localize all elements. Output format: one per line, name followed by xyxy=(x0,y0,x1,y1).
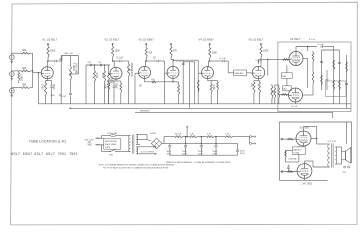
svg-text:D1B4: D1B4 xyxy=(151,133,157,135)
potentiometer hum balance xyxy=(267,59,269,69)
wire V6 grid xyxy=(281,171,298,173)
power tube V6 7591 xyxy=(297,164,312,179)
svg-text:V4 1/2 6SN7: V4 1/2 6SN7 xyxy=(199,37,215,41)
svg-text:25uF: 25uF xyxy=(52,84,55,90)
svg-text:0.1 uF: 0.1 uF xyxy=(291,106,298,108)
wire PI out A xyxy=(172,59,175,62)
output transformer T2 secondary xyxy=(335,147,337,164)
svg-text:100K: 100K xyxy=(263,51,269,53)
B+ riser arrow xyxy=(186,128,188,137)
ground bus wire xyxy=(39,103,352,105)
svg-text:OPT S-35: OPT S-35 xyxy=(328,141,336,143)
resistor R27 bias feed xyxy=(278,85,280,88)
svg-text:0.1 uF: 0.1 uF xyxy=(318,44,325,46)
triode V3b xyxy=(167,66,179,78)
input jack J3 xyxy=(9,88,14,93)
wire tone bus xyxy=(85,65,87,104)
resistor R18 cathode V5a xyxy=(258,79,260,81)
svg-text:10K 1W: 10K 1W xyxy=(175,133,182,135)
svg-text:0.1 uF: 0.1 uF xyxy=(117,58,124,60)
resistor R22 filter xyxy=(190,136,198,138)
resistor R6 2.7K cathode V1 xyxy=(46,79,48,81)
wire V6b grid xyxy=(278,94,289,96)
wire plate V1 xyxy=(47,58,49,62)
svg-text:LINE CORD: LINE CORD xyxy=(85,139,95,141)
resistor R20 screen xyxy=(312,51,314,53)
bridge rectifier D1 xyxy=(151,138,162,149)
svg-text:6SL7: 6SL7 xyxy=(11,152,20,156)
svg-text:1 MEG: 1 MEG xyxy=(72,63,75,71)
bias adj box xyxy=(292,147,305,154)
capacitor C11 xyxy=(326,78,329,80)
resistor R13 cathode V3a xyxy=(144,78,146,81)
resistor R7 tone xyxy=(94,65,96,71)
wire top link xyxy=(61,55,78,57)
svg-text:68K: 68K xyxy=(22,68,27,70)
transformer T1 core xyxy=(131,135,133,154)
wire HV to bridge xyxy=(140,134,147,136)
wire grid ground leg xyxy=(38,73,40,104)
power tube V5 7591 xyxy=(296,131,311,146)
svg-text:V1 1/2 6SL7: V1 1/2 6SL7 xyxy=(42,37,57,41)
input jack J2 xyxy=(9,72,14,77)
svg-text:6SL7: 6SL7 xyxy=(46,152,55,156)
wire bottom box feed xyxy=(346,122,348,144)
wire V6b plate xyxy=(295,102,297,104)
wire plate V5 xyxy=(260,58,262,66)
resistor R4 68K xyxy=(22,87,31,89)
resistor R9 100K plate V2 xyxy=(112,47,114,58)
svg-text:7591: 7591 xyxy=(58,152,67,156)
triode V4 xyxy=(202,67,214,79)
svg-text:FEEDBACK: FEEDBACK xyxy=(140,109,150,112)
svg-text:BIAS ADJ: BIAS ADJ xyxy=(235,72,244,75)
resistor R15 plate V4 xyxy=(209,48,211,59)
wire J3 to grid node xyxy=(30,87,32,89)
AC plug xyxy=(96,137,100,139)
capacitor C6 0.1uF xyxy=(113,60,119,62)
resistor R17 plate V5 xyxy=(260,47,262,58)
ground bus PSU xyxy=(170,154,238,156)
heater bus wire xyxy=(70,107,351,109)
resistor R3 grid leak xyxy=(18,71,20,73)
output transformer T2 primary xyxy=(328,144,330,167)
svg-text:V5 7591: V5 7591 xyxy=(300,125,310,129)
svg-text:BIAS ADJ: BIAS ADJ xyxy=(293,148,301,151)
B+ terminal V3a xyxy=(145,43,147,45)
pentode V6a upper xyxy=(289,52,303,66)
wire plate V2 xyxy=(112,58,114,62)
svg-text:V2 1/2 6SL7: V2 1/2 6SL7 xyxy=(105,37,120,41)
cathode resistor R25 xyxy=(288,165,290,167)
svg-text:TUBE LOCATION (L-R): TUBE LOCATION (L-R) xyxy=(29,140,66,144)
switch SW1 xyxy=(104,151,110,153)
svg-text:7591: 7591 xyxy=(69,152,78,156)
resistor R19 cathode V5b xyxy=(258,80,261,82)
potentiometer VOLUME 1Meg xyxy=(70,56,72,67)
B+ terminal V4 xyxy=(209,43,211,45)
power entry box xyxy=(104,139,121,149)
capacitor C4 treble xyxy=(89,64,91,67)
wire plate V4 xyxy=(209,58,211,61)
capacitor C5 bass xyxy=(99,64,101,67)
capacitor C8 coupling xyxy=(146,60,156,62)
wire to V1 grid xyxy=(33,72,42,74)
filter cap C22 xyxy=(200,143,202,145)
wire V6 plate link xyxy=(304,161,306,164)
wire V5 plate link xyxy=(303,127,305,132)
wire PI out B xyxy=(182,60,184,104)
resistor R1 68K xyxy=(22,52,31,54)
svg-text:1.5K: 1.5K xyxy=(104,84,107,89)
resistor R12 plate V3b xyxy=(170,47,172,58)
capacitor C10 xyxy=(320,45,322,48)
svg-text:PIN “H” OF EACH SOCKET TIED TO: PIN “H” OF EACH SOCKET TIED TO CHASSIS G… xyxy=(103,167,169,170)
svg-text:2700: 2700 xyxy=(41,84,44,90)
feedback network verticals xyxy=(333,47,335,104)
resistor R16 cathode V4 xyxy=(207,79,209,81)
filter link verticals xyxy=(185,137,187,144)
wire J2 to grid node xyxy=(30,70,32,72)
ground terminal xyxy=(60,94,62,96)
svg-text:100K: 100K xyxy=(115,51,121,53)
wire PI out C xyxy=(183,61,195,63)
wire V6 couple xyxy=(303,58,308,60)
svg-text:6SN7: 6SN7 xyxy=(23,152,33,156)
resistor R2 68K xyxy=(22,70,31,72)
svg-text:25uF: 25uF xyxy=(115,83,118,89)
filter cap C20 xyxy=(169,143,171,145)
svg-text:100K: 100K xyxy=(212,53,218,55)
B+ terminal V2 xyxy=(112,43,114,45)
wire J1 to grid node xyxy=(30,52,32,54)
triode V1 xyxy=(41,67,53,79)
wire B+ chain xyxy=(162,142,238,144)
svg-text:0.1 uF: 0.1 uF xyxy=(220,58,227,60)
svg-text:VAC: VAC xyxy=(88,144,93,147)
svg-text:0.1 uF: 0.1 uF xyxy=(176,61,183,63)
B+ terminal V3b xyxy=(170,43,172,45)
svg-text:CAPACITOR VALUE MARKING ... (C: CAPACITOR VALUE MARKING ... (C) MAY BE D… xyxy=(166,161,231,164)
svg-text:CAP, 1 M: CAP, 1 M xyxy=(64,52,73,55)
svg-text:6.3 V TO HTRS: 6.3 V TO HTRS xyxy=(141,151,155,153)
svg-text:47K: 47K xyxy=(101,73,104,78)
svg-text:68K: 68K xyxy=(22,50,27,52)
svg-text:68K: 68K xyxy=(22,85,27,87)
fuse F1 xyxy=(104,135,111,137)
capacitor C3 .047 xyxy=(69,92,72,94)
svg-text:GND: GND xyxy=(51,95,56,97)
filter cap C21 xyxy=(185,143,187,145)
svg-text:1 MEG: 1 MEG xyxy=(19,74,22,82)
svg-text:LINE BAL: LINE BAL xyxy=(289,158,297,161)
svg-text:V5 1/2 6SL7: V5 1/2 6SL7 xyxy=(249,37,264,41)
wire input junction xyxy=(32,53,34,87)
power section box xyxy=(279,121,351,123)
resistor R14 tail xyxy=(145,81,152,83)
svg-text:ADJ: ADJ xyxy=(283,88,287,91)
svg-text:V3 1/2 6SN7: V3 1/2 6SN7 xyxy=(139,37,155,41)
speaker SP1 xyxy=(342,151,346,160)
B+ terminal V5 xyxy=(260,43,262,45)
wire V3a grid xyxy=(135,72,139,74)
svg-text:BAL: BAL xyxy=(283,75,287,78)
filter cap C23 xyxy=(215,143,217,145)
resistor R10 1.5K cathode V2 xyxy=(115,79,117,81)
wire V6a grid xyxy=(278,58,289,60)
svg-text:NOTE: 6.3V HEATER WIRING NOT S: NOTE: 6.3V HEATER WIRING NOT SHOWN; CONN… xyxy=(99,163,175,166)
output transformer T2 core xyxy=(331,143,333,167)
pentode V6b lower xyxy=(289,88,303,102)
heater bus wire 2 xyxy=(135,112,333,114)
svg-text:→ V6 7591: → V6 7591 xyxy=(300,182,313,185)
svg-text:450V: 450V xyxy=(240,153,245,155)
svg-text:0.1/BAL: 0.1/BAL xyxy=(293,152,299,155)
svg-text:1K: 1K xyxy=(138,84,141,87)
capacitor C1 0.02 xyxy=(48,60,55,62)
svg-text:470K: 470K xyxy=(95,73,98,79)
svg-text:6SL7: 6SL7 xyxy=(34,152,43,156)
input jack J1 xyxy=(9,55,14,60)
bias network box xyxy=(234,70,247,76)
svg-text:WHITE BROWN: WHITE BROWN xyxy=(105,141,118,143)
capacitor C2 cathode bypass V1 xyxy=(46,80,52,82)
resistor R11 plate V3a xyxy=(145,48,147,59)
triode V2 xyxy=(110,67,122,79)
output network box xyxy=(326,81,347,97)
svg-text:VOLUME: VOLUME xyxy=(75,63,78,74)
upper box bottom tie xyxy=(332,112,334,118)
wire to V2 grid xyxy=(109,73,111,76)
transformer T1 primary xyxy=(129,136,131,152)
transformer T1 heater secondary xyxy=(136,147,138,154)
svg-text:SW: SW xyxy=(110,154,113,156)
triode V3a xyxy=(139,66,151,78)
svg-text:V4 6SL7: V4 6SL7 xyxy=(290,37,301,41)
potentiometer TONE xyxy=(108,65,110,73)
B+ terminal V1 xyxy=(47,43,49,45)
wire V6a plate xyxy=(295,47,297,52)
wire V4 grid xyxy=(198,72,201,74)
svg-text:10K: 10K xyxy=(151,79,155,81)
wire plate V3a xyxy=(145,58,147,61)
svg-text:8 Ω: 8 Ω xyxy=(343,172,347,174)
resistor R21 filter xyxy=(175,136,183,138)
filter cap C24 xyxy=(237,143,239,149)
resistor R8 tone xyxy=(104,65,106,71)
wire pot left leg xyxy=(60,56,62,104)
wire V3b cathode xyxy=(172,78,174,81)
resistor R5 100K plate V1 xyxy=(47,47,49,58)
screen resistor R24 xyxy=(311,138,317,140)
resistor R23b filter xyxy=(225,136,233,138)
B+ takeoff terminals xyxy=(249,137,251,144)
wire plate V3b xyxy=(170,58,172,60)
svg-text:47K: 47K xyxy=(173,51,178,53)
resistor R26 bias feed xyxy=(274,85,276,88)
capacitor C7 bypass V2 xyxy=(109,80,115,82)
capacitor C9 0.1uF xyxy=(210,60,223,62)
svg-text:470: 470 xyxy=(249,83,252,88)
speaker terminals xyxy=(344,166,346,168)
wire V6 cathode xyxy=(304,178,306,180)
resistor R23 filter xyxy=(207,136,215,138)
balance network xyxy=(282,73,293,79)
triode V5 xyxy=(252,66,264,78)
svg-text:100K: 100K xyxy=(50,51,56,53)
wire V5 grid xyxy=(281,138,297,140)
wire V5 out xyxy=(258,59,260,64)
driver section box xyxy=(278,42,351,112)
svg-text:1.5K: 1.5K xyxy=(212,85,215,90)
potentiometer PRESENCE 5K xyxy=(128,61,130,64)
svg-text:0.1 uF: 0.1 uF xyxy=(309,39,316,41)
svg-text:47K: 47K xyxy=(148,53,153,55)
transformer T1 HV secondary xyxy=(136,135,138,145)
